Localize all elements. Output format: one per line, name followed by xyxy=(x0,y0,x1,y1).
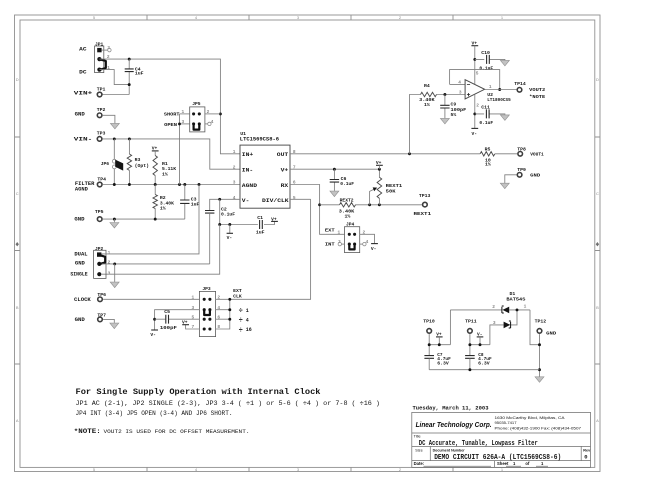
junction V+/C10 xyxy=(473,58,476,61)
svg-text:3: 3 xyxy=(338,239,341,245)
capacitor C2 xyxy=(205,206,235,264)
svg-text:TP4: TP4 xyxy=(97,176,106,182)
wire JP1 pin1 DC to VIN+ xyxy=(99,70,129,95)
resistor R4 xyxy=(419,83,436,108)
testpoint TP6 xyxy=(98,297,103,302)
capacitor C7 xyxy=(424,353,451,370)
NOTES xyxy=(74,387,380,436)
D1 pin numbers xyxy=(492,304,526,327)
resistor R2 xyxy=(153,185,174,220)
svg-text:REXT2: REXT2 xyxy=(340,197,354,203)
wire U1 OUT row xyxy=(290,153,517,155)
wire JP5 pin2 xyxy=(205,113,221,115)
svg-text:95035-7417: 95035-7417 xyxy=(495,420,518,425)
svg-text:TP3: TP3 xyxy=(97,131,106,137)
svg-text:EXT: EXT xyxy=(233,288,242,294)
capacitor C4 xyxy=(125,59,144,85)
svg-text:TP8: TP8 xyxy=(517,146,526,152)
svg-text:C3: C3 xyxy=(191,196,197,202)
svg-text:GND: GND xyxy=(546,331,556,337)
wire JP2 pin2 GND row xyxy=(102,263,210,265)
svg-text:GND: GND xyxy=(74,216,84,222)
JP4 pin4 open circle xyxy=(360,242,366,245)
wire TP11 row xyxy=(470,334,490,356)
svg-text:Sheet: Sheet xyxy=(497,461,509,466)
svg-text:5%: 5% xyxy=(451,112,457,118)
svg-text:V-: V- xyxy=(242,197,250,204)
JP5 shunt 3-4 xyxy=(192,122,201,129)
svg-text:(Opt): (Opt) xyxy=(135,163,150,169)
svg-text:1uF: 1uF xyxy=(256,230,265,236)
svg-text:4: 4 xyxy=(233,195,236,201)
label divide-by-1 xyxy=(239,308,249,316)
ground (C11) xyxy=(500,115,509,121)
wire U2 output to TP14 xyxy=(485,89,517,91)
JP3 pin numbers xyxy=(192,294,221,330)
svg-text:2: 2 xyxy=(363,229,366,235)
svg-text:3: 3 xyxy=(459,90,462,96)
junction C8 bottom xyxy=(468,368,471,371)
wire JP5 pin1 xyxy=(180,113,190,115)
ground (JP2) xyxy=(110,282,119,288)
junction AGND/C3 xyxy=(183,183,186,186)
svg-text:0: 0 xyxy=(584,454,587,461)
wire JP5 pins1-3 to AGND xyxy=(179,114,181,185)
junction pin2/C11 xyxy=(473,112,476,115)
svg-text:Linear Technology Corp.: Linear Technology Corp. xyxy=(416,422,492,429)
capacitor C10 xyxy=(475,50,505,72)
svg-text:Rev: Rev xyxy=(583,449,591,453)
svg-text:C1: C1 xyxy=(257,215,263,221)
svg-text:VIN-: VIN- xyxy=(74,136,93,142)
svg-text:BAT54S: BAT54S xyxy=(506,297,525,303)
power V+ (U2) xyxy=(471,40,478,84)
power V- (C1 row) xyxy=(227,225,233,242)
junction TP12/diode xyxy=(538,343,541,346)
svg-text:4: 4 xyxy=(211,119,214,125)
svg-text:4: 4 xyxy=(246,317,249,323)
svg-text:1%: 1% xyxy=(162,171,168,177)
label divide-by-16 xyxy=(239,327,252,335)
svg-text:GND: GND xyxy=(530,172,540,178)
svg-text:INT: INT xyxy=(325,241,335,247)
svg-text:C: C xyxy=(596,191,599,196)
wire U2 pin2 V- xyxy=(474,94,476,128)
wire AGND row xyxy=(103,184,240,186)
border inner rect xyxy=(20,20,595,467)
svg-text:1: 1 xyxy=(524,304,527,310)
jumper JP4 xyxy=(345,221,360,252)
svg-text:5: 5 xyxy=(293,195,296,201)
svg-text:TP5: TP5 xyxy=(95,209,104,215)
junction JP3 clk row3 xyxy=(228,318,231,321)
jumper JP5 xyxy=(190,101,205,132)
svg-text:1: 1 xyxy=(246,308,249,314)
junction TP5row/R2 xyxy=(154,218,157,221)
wire U1 V+ pin row xyxy=(290,168,379,170)
junction TP10 lead xyxy=(428,343,431,346)
svg-text:V-: V- xyxy=(472,131,478,137)
JP2 shunt 1-2 xyxy=(100,255,105,264)
junction V- pin xyxy=(218,198,221,201)
wire TP10 row xyxy=(429,334,450,356)
junction VIN-/R3 xyxy=(128,137,131,140)
svg-text:D: D xyxy=(16,77,19,82)
capacitor C11 xyxy=(475,104,505,126)
junction TP11 lead xyxy=(468,343,471,346)
testpoint TP9 xyxy=(517,173,522,178)
svg-text:VIN+: VIN+ xyxy=(74,91,93,97)
svg-text:V+: V+ xyxy=(281,167,289,174)
junction TP5row/gnd xyxy=(113,218,116,221)
testpoint TP1 xyxy=(97,92,102,97)
titleblock underlines xyxy=(424,465,549,467)
svg-text:CLK: CLK xyxy=(233,293,242,299)
resistor REXT2 xyxy=(320,197,422,219)
svg-text:JP5: JP5 xyxy=(192,101,201,107)
svg-text:REXT1: REXT1 xyxy=(386,183,403,189)
svg-text:0.1uF: 0.1uF xyxy=(340,181,354,187)
svg-text:1%: 1% xyxy=(424,102,430,108)
svg-text:*NOTE:: *NOTE: xyxy=(74,428,101,436)
capacitor C5 xyxy=(155,309,200,331)
wire TP9 to ground xyxy=(505,175,517,183)
wire JP4 pin2 to V- xyxy=(360,234,375,243)
JP5 pin numbers xyxy=(182,109,214,125)
svg-text:Date:: Date: xyxy=(414,461,424,466)
svg-text:5: 5 xyxy=(476,71,479,77)
svg-text:Document Number: Document Number xyxy=(433,449,465,453)
svg-text:5.11K: 5.11K xyxy=(162,166,176,172)
wire JP3 right column bus xyxy=(216,199,311,329)
testpoint TP12 xyxy=(537,329,542,334)
svg-text:TP6: TP6 xyxy=(97,292,106,298)
svg-text:3: 3 xyxy=(182,119,185,125)
svg-text:AC: AC xyxy=(79,46,86,52)
svg-text:CLOCK: CLOCK xyxy=(74,297,92,303)
svg-text:DUAL: DUAL xyxy=(74,252,87,258)
wire TP10 riser xyxy=(449,310,451,345)
svg-text:1%: 1% xyxy=(485,162,491,168)
svg-text:1: 1 xyxy=(192,294,195,300)
junction TP12/gnd row xyxy=(538,368,541,371)
junction V+ row C6 xyxy=(333,168,336,171)
svg-text:TP7: TP7 xyxy=(97,312,106,318)
jumper JP1 xyxy=(95,41,104,72)
JP1 pin3 stub wire xyxy=(102,49,108,51)
wire U2 feedback xyxy=(450,70,500,90)
wire TP12 lead xyxy=(539,334,541,377)
wire V- net to JP2 SINGLE xyxy=(102,225,220,275)
wire JP5 pin4 stub xyxy=(205,123,208,125)
junction R4/C9 xyxy=(443,93,446,96)
svg-text:VOUT2: VOUT2 xyxy=(529,87,545,93)
svg-text:1: 1 xyxy=(108,250,111,256)
svg-text:JP6: JP6 xyxy=(101,161,110,167)
svg-text:1: 1 xyxy=(182,109,185,115)
junction U2 output/feedback xyxy=(498,88,501,91)
svg-text:D1: D1 xyxy=(510,291,516,297)
junction DC/TP1/C4 xyxy=(128,83,131,86)
svg-text:VOUT1: VOUT1 xyxy=(530,151,544,157)
testpoint TP4 xyxy=(97,182,102,187)
diode D1 BAT54S top xyxy=(450,291,530,313)
svg-text:100pF: 100pF xyxy=(451,107,467,113)
ground (TP5 row) xyxy=(110,223,119,229)
JP4 pin numbers xyxy=(338,229,369,245)
wire TP5 gnd row xyxy=(103,218,185,220)
wire JP3 pin7 to V+ xyxy=(186,325,200,329)
svg-text:Phone: (408)432-1900 Fax: (408: Phone: (408)432-1900 Fax: (408)434-0507 xyxy=(495,425,582,430)
svg-text:Tuesday, March 11, 2003: Tuesday, March 11, 2003 xyxy=(413,406,489,412)
jumper JP2 xyxy=(94,246,106,278)
testpoint TP11 xyxy=(468,329,473,334)
wire TP6 to JP3 pin1 xyxy=(103,298,199,300)
svg-text:2: 2 xyxy=(233,164,236,170)
svg-text:2: 2 xyxy=(476,103,479,109)
svg-text:V-: V- xyxy=(150,332,156,338)
diode D1 BAT54S bottom xyxy=(490,310,517,345)
net label EXT CLK xyxy=(233,288,242,299)
wire JP3 pin3 to V- xyxy=(155,310,200,330)
svg-text:JP2: JP2 xyxy=(95,246,104,252)
IC U1 LTC1569CS8-6 xyxy=(240,131,290,208)
capacitor C8 xyxy=(465,353,492,370)
svg-text:B: B xyxy=(16,305,19,310)
junction AGND/JP5 xyxy=(178,183,181,186)
JP1 shunt 1-2 xyxy=(100,59,106,69)
wire JP1 pin2 to IN+ node xyxy=(99,59,240,154)
svg-text:3: 3 xyxy=(233,180,236,186)
testpoint TP14 xyxy=(517,88,522,93)
svg-text:C5: C5 xyxy=(164,309,170,315)
svg-text:GND: GND xyxy=(75,317,85,323)
power V+ (TP10) xyxy=(436,331,443,344)
TITLEBLOCK xyxy=(412,406,591,468)
resistor R1 xyxy=(153,156,176,185)
svg-text:C: C xyxy=(16,191,19,196)
jumper JP6 xyxy=(101,139,123,185)
JP1 pin numbers xyxy=(107,45,110,71)
junction JP5 pin2 xyxy=(219,112,222,115)
svg-text:RX: RX xyxy=(281,182,289,189)
wire RX net xyxy=(290,185,345,235)
svg-text:C9: C9 xyxy=(451,102,457,108)
testpoint TP10 xyxy=(427,329,432,334)
svg-text:R5: R5 xyxy=(485,146,491,152)
junction VIN-/JP6 xyxy=(113,137,116,140)
power V+ (REXT1) xyxy=(376,160,383,169)
junction RX/REXT2 xyxy=(318,203,321,206)
titleblock dividers xyxy=(412,433,591,467)
svg-text:3: 3 xyxy=(107,45,110,51)
svg-text:A: A xyxy=(596,418,599,423)
testpoint TP3 xyxy=(97,137,102,142)
ground (TP7) xyxy=(110,323,119,329)
svg-text:JP4 INT (3-4) JP5 OPEN (3-4) A: JP4 INT (3-4) JP5 OPEN (3-4) AND JP6 SHO… xyxy=(76,410,233,417)
wire JP5 pin3 xyxy=(180,123,190,125)
junction V+ row sym xyxy=(378,168,381,171)
wire V- net row xyxy=(220,199,275,224)
capacitor C9 xyxy=(440,95,466,119)
U1 pin numbers xyxy=(233,149,296,201)
svg-text:R4: R4 xyxy=(424,83,430,89)
svg-text:2: 2 xyxy=(492,304,495,310)
wire R4 branch xyxy=(410,95,466,154)
junction V+ stub (TP10) xyxy=(438,343,441,346)
capacitor C3 xyxy=(180,185,199,220)
svg-text:AGND: AGND xyxy=(75,186,88,192)
svg-text:÷: ÷ xyxy=(239,308,243,316)
svg-text:TP12: TP12 xyxy=(535,319,547,325)
junction JP2 gnd xyxy=(113,262,116,265)
junction V- net left xyxy=(218,223,221,226)
svg-text:1uF: 1uF xyxy=(135,71,144,77)
svg-text:1: 1 xyxy=(233,149,236,155)
op-amp U2 xyxy=(465,80,511,103)
svg-text:1: 1 xyxy=(107,65,110,71)
junction AGND/JP6 xyxy=(113,183,116,186)
svg-text:3: 3 xyxy=(493,320,496,326)
svg-text:OPEN: OPEN xyxy=(164,122,177,128)
svg-text:TP10: TP10 xyxy=(423,319,435,325)
potentiometer REXT1 xyxy=(370,169,403,205)
capacitor C1 xyxy=(256,215,265,236)
border mid diamonds xyxy=(16,242,600,246)
svg-text:Title: Title xyxy=(414,435,421,439)
svg-text:DC: DC xyxy=(79,69,86,75)
svg-text:OUT: OUT xyxy=(277,151,289,158)
ground (C9) xyxy=(440,118,449,124)
svg-text:B: B xyxy=(596,305,599,310)
svg-text:6.3V: 6.3V xyxy=(437,361,449,366)
ground (TP2) xyxy=(110,123,119,128)
junction C4 top xyxy=(128,58,131,61)
JP3 shunt 3-4 xyxy=(203,308,212,315)
wire TP7 to ground xyxy=(103,319,114,323)
ground (C10) xyxy=(500,60,509,66)
wire TP2 to ground xyxy=(103,115,115,123)
JP2 pin numbers xyxy=(108,250,111,277)
svg-text:SHORT: SHORT xyxy=(164,112,180,118)
power V+ (C1) xyxy=(271,216,278,222)
svg-text:1%: 1% xyxy=(345,213,351,219)
svg-text:REXT1: REXT1 xyxy=(414,211,432,217)
svg-text:TP9: TP9 xyxy=(517,167,526,173)
svg-text:TP13: TP13 xyxy=(419,193,431,199)
junction OUT/R4 xyxy=(408,152,411,155)
svg-text:÷: ÷ xyxy=(239,327,243,335)
svg-text:GND: GND xyxy=(75,112,85,118)
svg-text:50K: 50K xyxy=(386,189,396,195)
svg-text:0.1uF: 0.1uF xyxy=(479,65,493,71)
svg-text:TP2: TP2 xyxy=(97,107,106,113)
power V+ (JP3) xyxy=(182,320,189,326)
svg-text:DC Accurate, Tunable, Lowpass: DC Accurate, Tunable, Lowpass Filter xyxy=(419,440,538,448)
svg-text:R1: R1 xyxy=(162,161,168,167)
resistor R5 xyxy=(480,146,495,167)
svg-text:Size: Size xyxy=(415,449,422,453)
svg-text:D: D xyxy=(596,77,599,82)
svg-text:AGND: AGND xyxy=(242,182,258,189)
JP4 shunt 3-4 xyxy=(348,243,356,250)
JP5 pin4 open circle xyxy=(208,122,211,125)
svg-text:0.1uF: 0.1uF xyxy=(221,211,235,217)
svg-text:V+: V+ xyxy=(182,320,188,326)
svg-text:LT1800CS5: LT1800CS5 xyxy=(487,97,511,103)
junction diodes common xyxy=(516,308,519,311)
wire gnd stub (JP2) xyxy=(114,264,116,282)
junction REXT1 bottom xyxy=(378,203,381,206)
svg-text:A: A xyxy=(16,418,19,423)
svg-text:0.1uF: 0.1uF xyxy=(479,120,493,126)
svg-text:3: 3 xyxy=(108,271,111,277)
svg-text:For Single Supply Operation wi: For Single Supply Operation with Interna… xyxy=(76,387,321,397)
ground (TP12) xyxy=(535,377,544,383)
svg-text:LTC1569CS8-6: LTC1569CS8-6 xyxy=(240,136,279,142)
svg-text:DIV/CLK: DIV/CLK xyxy=(262,197,289,204)
wire U1 V- pin row xyxy=(210,199,240,210)
svg-text:TP14: TP14 xyxy=(514,81,526,87)
testpoint TP5 xyxy=(97,217,102,222)
resistor R3 xyxy=(127,139,149,185)
svg-text:IN+: IN+ xyxy=(242,151,254,158)
capacitor C6 xyxy=(330,169,354,191)
JP1 pin3 open circle xyxy=(108,48,111,51)
svg-text:JP1 AC (2-1), JP2 SINGLE (2-3): JP1 AC (2-1), JP2 SINGLE (2-3), JP3 3-4 … xyxy=(76,400,381,407)
junction AGND/R3 xyxy=(128,183,131,186)
svg-text:÷: ÷ xyxy=(239,317,243,325)
svg-text:2: 2 xyxy=(108,260,111,266)
net label FILTER AGND xyxy=(75,181,95,192)
svg-text:C10: C10 xyxy=(481,50,490,56)
power V- (U2) xyxy=(471,128,478,137)
testpoint TP13 xyxy=(423,202,428,207)
U2 pin numbers xyxy=(458,71,492,109)
junction AGND/JP2 xyxy=(198,183,201,186)
JP4 pin3 open circle xyxy=(338,242,344,245)
ground (C6) xyxy=(330,191,339,197)
junction REXT1 wiper xyxy=(368,203,371,206)
svg-text:R3: R3 xyxy=(135,157,141,163)
wire diode to TP12 xyxy=(530,310,540,345)
svg-text:100pF: 100pF xyxy=(160,325,177,331)
svg-text:C11: C11 xyxy=(481,104,490,110)
titleblock frame xyxy=(412,412,591,467)
svg-text:2: 2 xyxy=(207,109,210,115)
power V- (JP3) xyxy=(150,330,158,338)
svg-text:*NOTE: *NOTE xyxy=(529,94,545,100)
svg-text:GND: GND xyxy=(75,261,85,267)
testpoint TP8 xyxy=(518,152,523,157)
svg-text:4: 4 xyxy=(366,239,369,245)
jumper JP3 xyxy=(199,286,215,337)
junction JP3 clk row1 xyxy=(228,298,231,301)
junction JP5 pin3 xyxy=(178,122,181,125)
svg-text:SINGLE: SINGLE xyxy=(70,272,87,278)
junction AGND/R1/R2 xyxy=(154,183,157,186)
label divide-by-4 xyxy=(239,317,249,325)
svg-text:1uF: 1uF xyxy=(191,202,200,208)
wire JP2 pin1 DUAL to AGND xyxy=(102,185,199,254)
svg-text:V-: V- xyxy=(371,246,377,252)
wire gnd stub (TP5 row) xyxy=(113,219,115,222)
ground (TP9) xyxy=(500,183,509,189)
power V- (TP11) xyxy=(477,331,484,344)
svg-text:IN-: IN- xyxy=(242,167,253,174)
svg-text:4: 4 xyxy=(458,80,461,86)
svg-text:TP11: TP11 xyxy=(465,319,477,325)
